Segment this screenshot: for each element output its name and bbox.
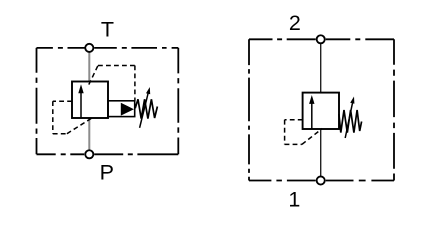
enclosure boundary (dash-dot frame) top edge left part [249, 38, 316, 40]
enclosure boundary top edge right part [94, 47, 178, 49]
enclosure boundary right edge [393, 39, 395, 180]
valve envelope (main square) [72, 82, 108, 119]
enclosure boundary bottom edge left part [37, 153, 85, 155]
spring adjustment arrow [345, 103, 352, 139]
enclosure boundary bottom edge right part [326, 180, 394, 182]
wire: stem from valve body down to port P [88, 118, 90, 150]
port P circle [85, 150, 93, 158]
enclosure boundary bottom edge right part [94, 153, 178, 155]
wire: stem from port 2 down to valve body [320, 44, 322, 93]
pilot line diagonal joining port 1 stem [302, 129, 322, 145]
port 1 circle [317, 176, 325, 184]
pilot line diagonal joining P stem [67, 117, 93, 133]
enclosure boundary bottom edge left part [249, 180, 316, 182]
pilot/drain line (dashed) top: diagonal from T stem [89, 66, 98, 85]
pilot line (dashed) left loop [285, 119, 303, 121]
spring (zigzag) [339, 110, 362, 133]
svg-text:2: 2 [289, 11, 301, 35]
enclosure boundary (dash-dot frame) top edge left part [37, 47, 86, 49]
enclosure boundary right edge [177, 48, 179, 154]
flow arrow inside envelope [311, 103, 313, 129]
port T circle [85, 44, 93, 52]
enclosure boundary top edge right part [326, 38, 394, 40]
enclosure boundary left edge [248, 39, 250, 180]
svg-text:P: P [100, 161, 114, 185]
spring (zigzag) [135, 99, 157, 118]
svg-text:T: T [101, 17, 114, 41]
port 2 circle [317, 35, 325, 43]
enclosure boundary left edge [36, 48, 38, 154]
spring adjustment arrow [140, 93, 149, 128]
check poppet (filled triangle) [121, 103, 134, 116]
svg-text:1: 1 [288, 188, 300, 212]
wire: stem from valve body down to port 1 [320, 129, 322, 176]
pilot line (dashed) left loop: from envelope left side [53, 100, 72, 102]
flow arrow inside envelope [80, 92, 82, 118]
wire: stem from port T down to valve body [88, 52, 90, 81]
seat rectangle [108, 101, 135, 117]
valve envelope (square) [303, 93, 339, 129]
